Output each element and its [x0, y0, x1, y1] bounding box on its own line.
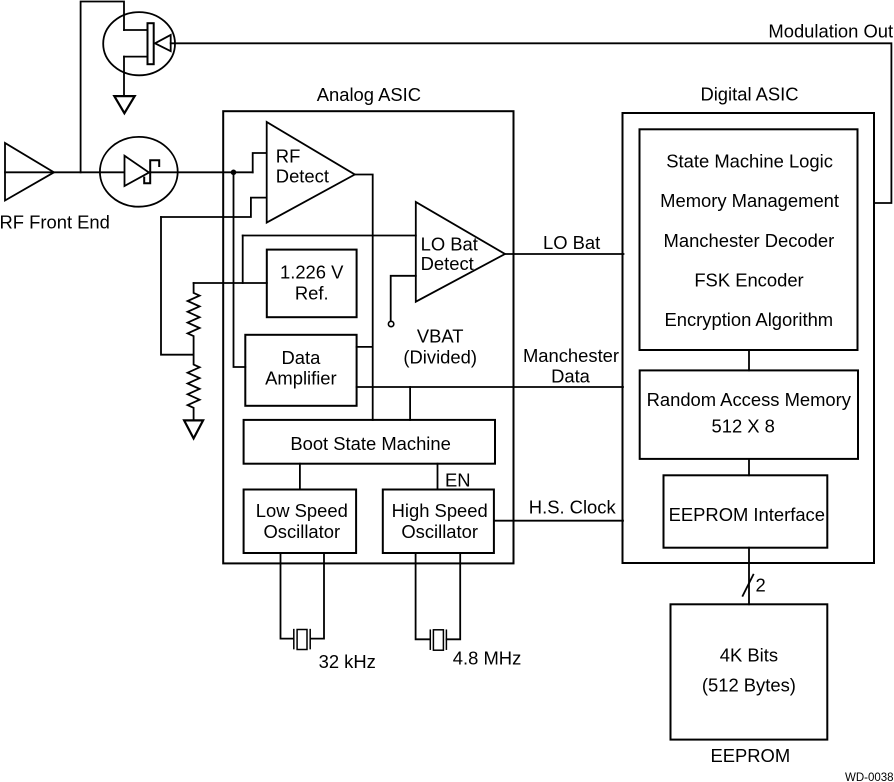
svg-text:Data: Data: [551, 365, 591, 386]
wire boot to low speed osc: [299, 464, 301, 490]
svg-text:Random Access Memory: Random Access Memory: [647, 389, 852, 410]
svg-text:4K Bits: 4K Bits: [720, 645, 778, 666]
wire ref to resistor: [194, 282, 267, 284]
svg-text:EEPROM Interface: EEPROM Interface: [669, 504, 825, 525]
svg-text:Oscillator: Oscillator: [401, 521, 478, 542]
svg-text:32 kHz: 32 kHz: [319, 651, 376, 672]
svg-text:Oscillator: Oscillator: [263, 521, 340, 542]
wire RF input main line: [5, 171, 253, 173]
box High Speed Oscillator: [383, 490, 494, 554]
box Low Speed Oscillator: [244, 490, 357, 554]
diode D1 triangle: [125, 156, 150, 186]
wire VBAT divided input: [391, 276, 416, 321]
wire crystal X2 right lead: [447, 553, 461, 639]
box EEPROM Interface: [664, 475, 828, 547]
svg-text:RF: RF: [276, 145, 301, 166]
wire data amp out to boot: [357, 346, 373, 348]
diode D1 schottky cathode: [144, 160, 159, 183]
svg-text:Amplifier: Amplifier: [265, 368, 337, 389]
box 1.226 V Ref: [267, 250, 357, 318]
wire crystal X2 left lead: [416, 553, 431, 639]
svg-text:State Machine Logic: State Machine Logic: [666, 150, 833, 171]
resistor R1: [188, 283, 200, 355]
svg-text:WD-0038: WD-0038: [845, 772, 894, 782]
op-amp RF Detect: [267, 122, 355, 223]
transistor Q1 circle: [103, 12, 175, 75]
wire EN boot to high speed osc: [437, 464, 439, 490]
box state machine logic: [640, 129, 858, 350]
terminal VBAT: [388, 321, 393, 326]
wire H.S. Clock: [494, 520, 623, 522]
svg-text:2: 2: [756, 575, 766, 596]
transistor Q1 source lead: [124, 56, 148, 58]
svg-text:EN: EN: [445, 469, 471, 490]
ground under Q1: [114, 96, 134, 113]
box Random Access Memory: [640, 370, 858, 459]
svg-text:Ref.: Ref.: [295, 283, 329, 304]
svg-text:VBAT: VBAT: [417, 326, 464, 347]
wire ram to eeprom interface: [748, 459, 750, 475]
svg-text:Memory Management: Memory Management: [660, 190, 839, 211]
svg-text:EEPROM: EEPROM: [710, 745, 790, 766]
svg-text:Analog ASIC: Analog ASIC: [317, 84, 421, 105]
svg-text:512 X 8: 512 X 8: [711, 416, 774, 437]
svg-text:Manchester Decoder: Manchester Decoder: [664, 230, 835, 251]
transistor Q1 gate bar: [148, 23, 154, 64]
svg-text:Data: Data: [281, 347, 321, 368]
wire eeprom interface to eeprom: [748, 548, 750, 605]
wire LO Bat Detect input: [243, 235, 416, 237]
node junction dot: [231, 170, 237, 176]
diode D1 circle: [100, 137, 178, 207]
wire crystal X1 right lead: [311, 553, 324, 639]
svg-text:Boot State Machine: Boot State Machine: [290, 433, 451, 454]
svg-text:LO Bat: LO Bat: [421, 234, 478, 255]
svg-text:Detect: Detect: [421, 253, 474, 274]
transistor Q1 arrow: [155, 35, 171, 51]
box EEPROM 4K bits: [671, 604, 828, 739]
crystal X1: [294, 630, 310, 650]
resistor R2: [188, 355, 200, 421]
svg-text:High Speed: High Speed: [392, 500, 488, 521]
svg-text:(512 Bytes): (512 Bytes): [702, 675, 796, 696]
wire RF Detect lower input: [161, 198, 267, 217]
transistor Q1 drain lead: [124, 29, 148, 31]
svg-text:RF Front End: RF Front End: [0, 211, 110, 232]
Analog ASIC box: [223, 111, 513, 563]
op-amp LO Bat Detect: [416, 202, 505, 302]
crystal X2: [430, 630, 446, 650]
svg-text:LO Bat: LO Bat: [543, 232, 600, 253]
box Data Amplifier: [245, 335, 356, 406]
box Boot State Machine: [244, 420, 495, 464]
antenna RF Front End: [5, 143, 54, 201]
svg-text:Encryption Algorithm: Encryption Algorithm: [664, 309, 833, 330]
ground under resistors: [184, 420, 203, 438]
svg-text:(Divided): (Divided): [403, 347, 477, 368]
Digital ASIC box: [623, 113, 875, 563]
wire top loop: [81, 2, 124, 173]
svg-text:4.8 MHz: 4.8 MHz: [453, 648, 521, 669]
wire Manchester Data: [357, 386, 623, 388]
wire crystal X1 left lead: [281, 553, 294, 639]
bus slash 2: [743, 575, 754, 596]
svg-text:Modulation Out: Modulation Out: [768, 21, 893, 42]
wire RF Detect upper input: [253, 153, 267, 172]
svg-text:Manchester: Manchester: [523, 345, 619, 366]
wire logic to ram: [748, 350, 750, 370]
wire Q1 source to ground: [123, 57, 125, 96]
wire Modulation Out: [171, 43, 892, 203]
wire LO Bat output: [505, 253, 624, 255]
svg-text:1.226 V: 1.226 V: [280, 262, 344, 283]
svg-text:FSK Encoder: FSK Encoder: [694, 269, 803, 290]
wire node to data amplifier: [234, 172, 246, 367]
svg-text:H.S. Clock: H.S. Clock: [529, 497, 617, 518]
svg-text:Detect: Detect: [276, 165, 329, 186]
wire manchester to boot: [409, 387, 411, 420]
svg-text:Digital ASIC: Digital ASIC: [700, 83, 798, 104]
wire to resistor tap: [161, 217, 194, 355]
svg-text:Low Speed: Low Speed: [256, 500, 348, 521]
wire RF Detect output: [355, 175, 373, 421]
wire ref node: [242, 236, 244, 284]
